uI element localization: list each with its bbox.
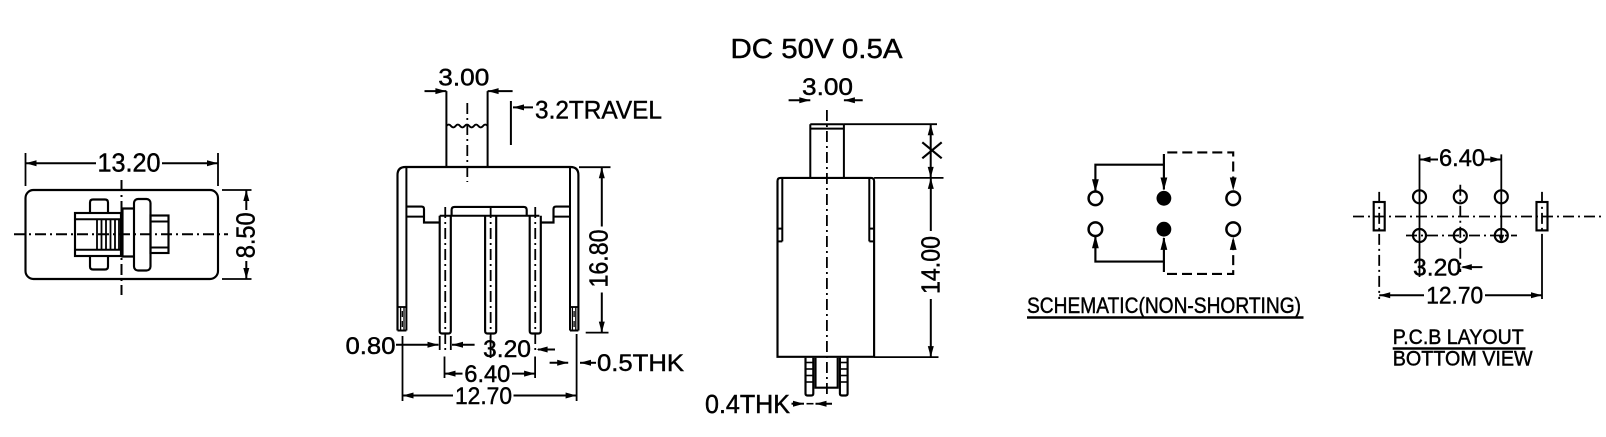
svg-text:0.4THK: 0.4THK [705,389,791,419]
front dim 3.00 [425,90,447,92]
front view: right pin crimp [570,306,578,308]
front dim 16.80 line [601,167,603,332]
pcb: right pad centerline / 12.70 ext [1541,192,1543,240]
front dim text 16.80 [590,227,612,293]
top view: actuator band left part [123,209,135,257]
dim text 8.50 [236,210,257,260]
pcb: col3 extension line [1500,154,1502,239]
front dim 16.80 ext lines [579,166,611,168]
schematic: wire dashed bottom [1164,238,1233,274]
svg-text:12.70: 12.70 [1426,283,1483,310]
svg-text:DC 50V 0.5A: DC 50V 0.5A [731,33,903,64]
front dim 3.20 ext line [490,336,492,358]
side dim 0.4THK [792,403,805,405]
front view: body outline [398,167,579,331]
side view: bottom U channel [816,358,838,388]
side view: bottom pin 1 [806,358,814,396]
front view: right outer pin bottom [570,330,578,332]
pcb: bottom row centerline [1406,235,1517,237]
svg-text:P.C.B LAYOUT: P.C.B LAYOUT [1393,325,1524,349]
side view: bottom pin 2 [840,358,848,396]
schematic: terminal open circles [1089,192,1103,206]
front view: pin 3 centerline [534,207,536,350]
svg-text:0.80: 0.80 [346,333,396,360]
front view: pin 2 centerline [490,207,492,350]
svg-text:8.50: 8.50 [230,212,260,258]
dim 8.50 top arrow [243,190,249,201]
front dim 12.70 ext lines [402,336,404,401]
front view: body inner right wall / right pin inner edge [569,167,571,331]
dim 13.20 extension lines [25,153,27,186]
schematic: wire solid bottom [1095,237,1164,262]
schematic: common terminals filled [1157,191,1172,206]
side view: left mounting tab [781,179,783,241]
top view: horizontal centerline [14,233,228,235]
pcb: right side pad [1537,202,1548,230]
pcb: col2 centerline [1459,185,1461,272]
front dim 12.70 line [403,395,454,397]
svg-text:0.5THK: 0.5THK [597,350,684,377]
pcb: left side pad [1374,202,1385,230]
svg-text:14.00: 14.00 [916,236,946,294]
svg-text:3.2TRAVEL: 3.2TRAVEL [535,97,662,125]
dim 8.50 line [245,190,247,210]
front view: stem centerline [466,103,468,182]
side view: stem [809,124,811,178]
pcb: hole circles top row [1413,190,1426,203]
svg-text:3.00: 3.00 [438,65,489,92]
svg-text:3.00: 3.00 [802,74,853,101]
top view: actuator stem right [151,216,169,254]
side dim X line [930,124,932,178]
front dim 3.2TRAVEL tick [510,101,512,145]
schematic: wire dashed top [1164,152,1233,189]
top view: vertical centerline [121,180,123,295]
pcb dim 6.40 line [1420,159,1439,161]
side view: centerline [826,110,828,396]
front dim 0.5THK [550,362,569,364]
pcb: hole circles bottom row [1413,229,1426,242]
top view: actuator bar [134,199,151,271]
top view: switch body outline [26,190,219,279]
front view: pin 1 centerline [444,207,446,350]
side view: right mounting tab [868,179,870,241]
front view: pin shoulder line [440,215,540,217]
side dim X symbol [922,142,941,158]
front dim 0.80 ext lines [439,336,441,350]
pcb: col1 extension line [1419,154,1421,277]
svg-text:SCHEMATIC(NON-SHORTING): SCHEMATIC(NON-SHORTING) [1027,293,1301,318]
front view: stem break zigzag [446,125,487,128]
front view: left pin crimp [398,306,407,308]
top view: knob bottom tab [90,255,108,270]
front view: middle pin 1 [440,216,451,334]
dim 8.50 bottom arrow [243,268,249,279]
front view: middle pin 3 [530,216,541,334]
front view: stem sides [445,91,447,166]
front view: middle pin 2 [485,216,496,334]
front view: body inner left wall / left pin inner edge [405,167,407,331]
pcb: col3 down arrowhead [1498,235,1504,244]
front dim 3.20 arrow [538,349,555,351]
svg-text:6.40: 6.40 [464,361,510,388]
svg-text:6.40: 6.40 [1439,145,1485,172]
pcb: left pad centerline / 12.70 ext [1378,192,1380,299]
pcb label underline [1393,347,1526,349]
front view: left outer pin bottom [398,330,407,332]
front view: center bump [452,207,527,216]
front dim 6.40 line [445,373,463,375]
front view: bottom profile left [406,207,439,223]
top view: knob top tab [90,200,108,215]
svg-text:16.80: 16.80 [584,230,614,288]
side dim 3.00 [789,99,811,101]
side view: body outline [778,178,875,357]
front view: bottom profile right [541,207,570,223]
svg-text:3.20: 3.20 [483,336,531,363]
side dim text 14.00 [921,231,943,299]
top view: knob band inner lines [75,218,121,220]
dim 8.50 extension lines [222,189,252,191]
side dim X ext lines [844,123,937,125]
front dim 3.2TRAVEL leader [513,106,533,108]
side dim 14.00 line [930,178,932,233]
pcb dim 12.70 line [1379,294,1424,296]
dim 13.20 line [26,162,97,164]
front dim 6.40 ext lines [444,357,446,379]
dim 13.20 left arrow [26,160,37,166]
pcb dim 3.20 arrow [1463,266,1483,268]
schematic: wire solid top [1095,165,1164,191]
schematic label underline [1027,316,1304,318]
side dim 14.00 ext line bottom [874,356,938,358]
pcb: main horizontal centerline [1353,216,1602,218]
svg-text:BOTTOM VIEW: BOTTOM VIEW [1393,347,1534,371]
svg-text:13.20: 13.20 [98,148,161,178]
top view: knob hatching [96,219,98,250]
svg-text:3.20: 3.20 [1413,255,1461,282]
top view: actuator stem inner lines [151,221,169,223]
dim 13.20 right arrow [207,160,218,166]
front dim 0.80 line [396,344,439,346]
top view: knob band outer rect [75,213,121,256]
